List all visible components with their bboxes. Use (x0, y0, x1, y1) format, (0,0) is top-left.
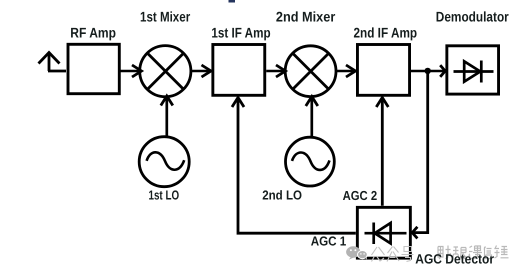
node junction dot (425, 68, 431, 74)
arrowhead into Demodulator (440, 65, 445, 77)
cropped text fragment top edge (229, 0, 236, 3)
amplifier 1st IF Amp box (213, 45, 265, 96)
arrowhead into 1st IF Amp (202, 65, 212, 77)
arrowhead into 1st mixer (132, 65, 142, 77)
svg-text:1st Mixer: 1st Mixer (140, 8, 191, 24)
demodulator box (447, 46, 499, 94)
svg-text:AGC 2: AGC 2 (343, 188, 378, 203)
arrowhead into 2nd IF Amp (346, 65, 356, 77)
oscillator 1st LO circle with sine (139, 137, 189, 187)
diode D2 in AGC detector (pointing left) (365, 223, 407, 245)
mixer M2 circle with X (285, 46, 336, 97)
arrowhead into 2nd mixer (276, 65, 286, 77)
wire from junction down to AGC detector input (413, 71, 428, 233)
arrowhead up into 1st IF Amp bottom (232, 98, 244, 108)
arrowhead up into 2nd IF Amp bottom (376, 98, 388, 108)
svg-text:2nd LO: 2nd LO (262, 187, 302, 202)
diode D1 in demodulator (454, 61, 494, 83)
AGC detector box (357, 207, 410, 258)
svg-text:2nd IF Amp: 2nd IF Amp (354, 25, 418, 41)
arrowhead up into 1st mixer (161, 96, 173, 106)
wire 1st LO to 1st Mixer (165, 97, 168, 138)
amplifier RF Amp box (68, 44, 119, 93)
wire 2nd IF Amp to Demodulator (410, 70, 445, 73)
antenna (39, 53, 67, 72)
svg-text:1st LO: 1st LO (149, 188, 180, 203)
svg-text:Demodulator: Demodulator (436, 8, 509, 24)
svg-text:1st IF Amp: 1st IF Amp (211, 25, 270, 41)
svg-text:AGC Detector: AGC Detector (415, 251, 494, 266)
arrowhead left into AGC detector right edge (412, 227, 417, 239)
wire 2nd Mixer to 2nd IF Amp (336, 70, 355, 73)
arrowhead up into 2nd mixer (306, 97, 318, 107)
wire 1st IF Amp to 2nd Mixer (266, 70, 285, 73)
wire 1st Mixer to 1st IF Amp (191, 70, 210, 73)
watermark chat-bubble icon (346, 246, 367, 259)
mixer M1 circle with X (140, 46, 191, 97)
svg-text:AGC 1: AGC 1 (311, 233, 347, 248)
wire RF Amp to 1st Mixer (119, 70, 142, 73)
wire 2nd LO to 2nd Mixer (310, 98, 313, 138)
wire AGC 1: from detector left to under 1st IF Amp then up (238, 99, 356, 234)
wire AGC 2: from detector top up to 2nd IF Amp bottom (381, 99, 384, 206)
amplifier 2nd IF Amp box (357, 45, 409, 96)
watermark text 射频通信链 (outline glyph approximations) (438, 246, 509, 260)
svg-text:2nd Mixer: 2nd Mixer (276, 9, 336, 25)
oscillator 2nd LO circle with sine (286, 137, 335, 186)
watermark text 公众号 (outline glyph approximations) (372, 247, 414, 262)
svg-text:RF Amp: RF Amp (70, 25, 116, 41)
